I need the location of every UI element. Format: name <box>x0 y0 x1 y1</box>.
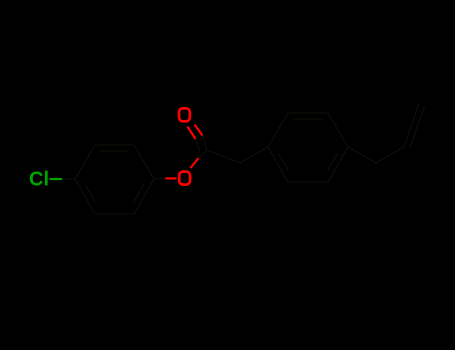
bond CH2 to CH= <box>376 147 404 163</box>
atom label O (carbonyl oxygen) <box>179 108 190 121</box>
ring A inner double bond (lower-left edge) <box>85 185 95 203</box>
ring B inner double bond (lower-left edge) <box>278 153 288 171</box>
ring A inner double bond (lower-right edge) <box>134 185 144 203</box>
bond ring B to CH2 of side chain <box>348 147 376 163</box>
benzene ring A (4-chlorophenyl) <box>75 145 154 214</box>
bond ring A to ester O (carbon half) <box>154 178 166 181</box>
double bond C=O main line (red half) <box>195 125 203 136</box>
ring A inner double bond (top edge) <box>101 150 129 152</box>
ring B inner double bond (top edge) <box>294 118 323 120</box>
bond ester O to carbonyl C (carbon half) <box>199 150 208 158</box>
bond carbonyl C to CH2 <box>207 150 240 163</box>
bond ring A to ester O (red half) <box>166 177 177 179</box>
bond Cl to ring A (green half) <box>50 178 63 180</box>
svg-text:Cl: Cl <box>29 169 49 191</box>
bond ester O to carbonyl C (red half) <box>191 158 199 168</box>
double bond C=O main line (carbon half) <box>203 136 208 151</box>
double bond C=O twin line (carbon half) <box>196 139 200 151</box>
terminal C=C double bond main line <box>404 103 419 147</box>
benzene ring B (para-substituted phenylene) <box>268 113 348 182</box>
bond Cl to ring A (carbon half) <box>62 178 75 180</box>
terminal C=C double bond twin line <box>410 106 425 148</box>
bond CH2 to ring B <box>240 147 268 163</box>
atom label O (ester oxygen) <box>179 172 190 185</box>
double bond C=O twin line (red half) <box>188 127 196 140</box>
ring B inner double bond (lower-right edge) <box>328 153 338 171</box>
